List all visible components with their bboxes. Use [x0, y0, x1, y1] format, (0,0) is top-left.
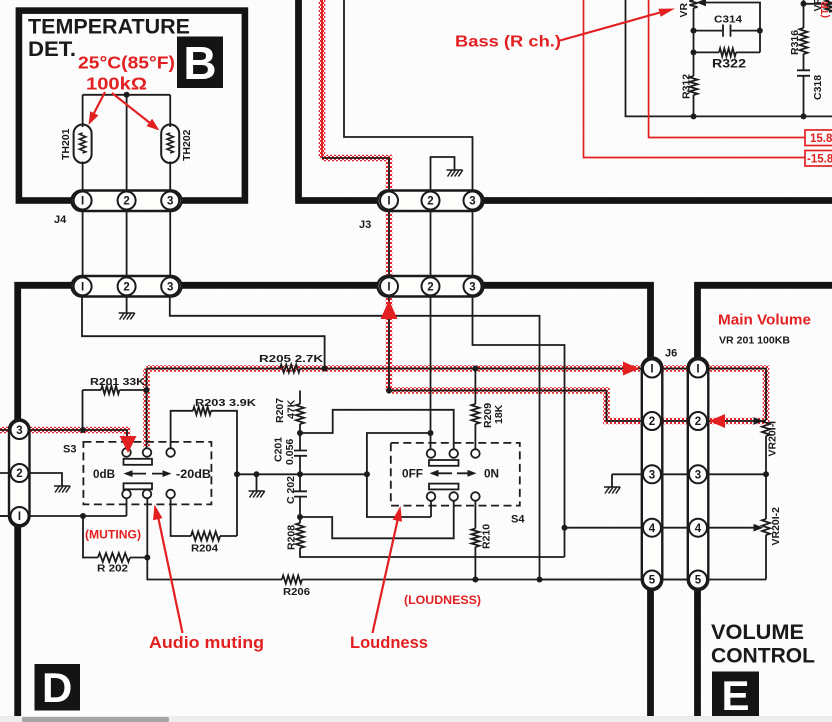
svg-text:R208: R208: [286, 525, 298, 550]
switch S4 contact 3: [471, 449, 480, 458]
svg-text:R207: R207: [274, 398, 286, 423]
capacitor C318: [797, 70, 810, 76]
svg-text:Audio muting: Audio muting: [149, 634, 264, 652]
wire R203 right leg down to mid rail: [211, 411, 237, 475]
svg-text:I: I: [81, 196, 84, 208]
section border top-right circuit block: [295, 0, 832, 201]
switch S4 contact 2: [449, 449, 458, 458]
connector J6 left pin 4: [643, 519, 661, 537]
wire R210 top from S4 bottom contact3: [474, 501, 476, 529]
browser scrollbar thumb: [22, 717, 169, 722]
connector left pin 2: [11, 464, 29, 482]
connector J3 mate pin 2: [422, 277, 440, 295]
resistor R207 47K: [296, 404, 304, 424]
red trace arrow right into J6 pin1: [623, 362, 639, 376]
node junction at 693.5,116.4: [691, 113, 697, 119]
svg-text:R206: R206: [283, 586, 310, 598]
svg-text:(MUTING): (MUTING): [85, 530, 141, 542]
connector J6 left pin 5: [643, 571, 661, 589]
svg-text:I: I: [387, 196, 390, 208]
red test-point line to 15.8 box: [649, 0, 805, 138]
node junction at 766,474.3: [763, 471, 769, 477]
wire R316 top lead: [804, 0, 832, 28]
svg-text:R316: R316: [789, 30, 801, 55]
wire R207 bottom to C201: [299, 424, 301, 450]
svg-text:2: 2: [16, 468, 22, 480]
svg-text:I: I: [387, 282, 390, 294]
resistor R208: [296, 523, 304, 548]
section badge B: [177, 37, 223, 89]
wire bottom rail right of R206: [302, 579, 688, 581]
wire J3 pin2 to ground jog: [431, 157, 455, 200]
wire TH201 bottom lead to J4 pin1: [82, 162, 84, 201]
connector J3 mate pin 3: [464, 277, 482, 295]
svg-text:3: 3: [167, 282, 173, 294]
wire J3 mate pin1 down to audio node (under red): [388, 296, 390, 391]
connector J3 pin 1: [380, 192, 398, 210]
resistor R206: [282, 576, 302, 584]
svg-text:R201 33K: R201 33K: [90, 376, 145, 388]
svg-text:B: B: [183, 37, 216, 89]
svg-text:VR: VR: [812, 0, 824, 12]
svg-text:2: 2: [427, 196, 433, 208]
wire R205 left lead: [147, 368, 281, 370]
svg-text:C314: C314: [714, 14, 742, 26]
resistor R316: [800, 28, 808, 54]
svg-text:47K: 47K: [286, 399, 298, 419]
wire VR201-1 bottom to pin3 node: [765, 436, 767, 474]
connector left pin 3: [11, 421, 29, 439]
wire J3 pin3 to mate pin3: [472, 201, 474, 287]
node junction at 759.8,30.6: [757, 28, 763, 34]
svg-text:15.8: 15.8: [810, 133, 832, 145]
node junction at 475.4,579.5: [472, 577, 478, 583]
connector J4 mate row 2 body: [72, 276, 182, 297]
svg-text:VR20I-2: VR20I-2: [770, 507, 782, 546]
wire S4 top contact1 stub: [430, 433, 432, 449]
wire J6 pin3 to VR201 center tap node: [708, 473, 766, 475]
resistor R312: [690, 76, 698, 95]
connector left pin 1: [11, 507, 29, 525]
svg-text:I: I: [81, 282, 84, 294]
VR bass wiper arrow: [696, 0, 706, 6]
switch S3 contact 5: [143, 490, 152, 499]
wire C318 bottom lead: [803, 77, 805, 117]
resistor R205 2.7K: [280, 365, 300, 373]
wire C314 leads: [694, 30, 761, 32]
wire J3 pin1 up and left (under red trace): [322, 158, 389, 200]
node junction at 237,474.3: [234, 471, 240, 477]
red arrow Loudness leader: [373, 516, 399, 633]
switch S4 contact 6: [471, 492, 480, 501]
svg-text:2: 2: [123, 282, 129, 294]
wire TH201 top lead: [82, 95, 84, 127]
wire J4 mate pin3 to bottom rail via long drop: [170, 296, 540, 579]
wire thermistor top rail: [83, 94, 171, 96]
VR201-1 wiper arrow: [754, 417, 764, 425]
capacitor C314: [723, 25, 731, 37]
section box D border: [18, 285, 651, 716]
ground mid rail: [249, 491, 265, 498]
wire node mid rail to J4 pin2: [126, 95, 128, 200]
wire left connector pin3 stub: [0, 429, 20, 431]
svg-text:3: 3: [16, 425, 22, 437]
svg-text:5: 5: [695, 575, 702, 587]
wire J6 pin4 wiper line: [708, 527, 754, 529]
wire R202 left leg: [83, 516, 98, 558]
connector J3 mate pin 1: [380, 277, 398, 295]
wire R316 bottom to C318: [803, 54, 805, 70]
switch S3 contact 3: [166, 448, 175, 457]
svg-text:Main Volume: Main Volume: [718, 312, 811, 329]
ground at J6 pin3: [604, 487, 620, 494]
wire left connector pin2 stub: [0, 472, 20, 474]
switch S3 moving bar bottom: [124, 483, 153, 489]
svg-text:2: 2: [649, 416, 655, 428]
svg-text:3: 3: [469, 196, 475, 208]
section box B border (TEMPERATURE DET.): [19, 11, 245, 201]
svg-text:2: 2: [123, 196, 129, 208]
wire R322 leads: [694, 31, 761, 53]
svg-text:DET.: DET.: [28, 38, 76, 61]
wire red signal trace: J3 pin1 branch down to node at y390: [322, 158, 389, 391]
node junction at 803.5,116.4: [801, 113, 807, 119]
svg-text:0FF: 0FF: [402, 469, 423, 481]
connector J6 right pin 4: [689, 519, 707, 537]
svg-text:Loudness: Loudness: [350, 634, 428, 652]
connector J6 left pin 2: [643, 412, 661, 430]
wire left pin2 to ground: [20, 473, 63, 486]
node junction at 366.9,474.3: [364, 471, 370, 477]
connector J6 left pin 1: [643, 360, 661, 378]
connector J6 left pin 3: [643, 465, 661, 483]
node junction at 539.5,579.5: [537, 577, 543, 583]
ground at left pin2: [54, 486, 70, 493]
svg-text:R322: R322: [712, 59, 746, 71]
thermistor TH202: [161, 125, 179, 164]
red test-point line to -15.8 box: [584, 0, 806, 158]
wire C202 node jog to S4 bottom contact2: [300, 501, 454, 538]
wire VR201-2 bottom lead: [708, 535, 766, 580]
svg-text:J6: J6: [665, 348, 677, 360]
section badge D: [35, 664, 81, 711]
svg-text:TH202: TH202: [181, 129, 193, 161]
wire S3 contact2 bottom to bottom rail: [147, 558, 282, 580]
switch S3 muting dashed body: [83, 442, 211, 505]
wire J6 pin1 to VR201-1 top: [708, 369, 766, 421]
node junction at 256.5,474.3: [254, 471, 260, 477]
svg-text:(LOUDNESS): (LOUDNESS): [404, 595, 481, 607]
node junction at 300,433: [297, 430, 303, 436]
connector J4 pin 1: [74, 192, 92, 210]
red arrow Audio muting leader: [158, 514, 183, 633]
resistor R210: [471, 529, 479, 548]
svg-text:25°C(85°F): 25°C(85°F): [78, 53, 175, 73]
resistor R322: [719, 48, 736, 56]
svg-text:R204: R204: [191, 543, 218, 555]
svg-text:R205 2.7K: R205 2.7K: [259, 353, 324, 365]
connector J3 mate row 2 body: [378, 276, 484, 297]
wire C202 top from mid rail: [299, 474, 301, 490]
node junction at 693.5,52.4: [691, 49, 697, 55]
red arrow 100k to TH201: [92, 92, 105, 117]
node junction at 83,516: [80, 513, 86, 519]
connector J3 pin 2: [422, 192, 440, 210]
wire red signal trace: jump to Bass circuit at top: [321, 0, 323, 158]
svg-text:4: 4: [695, 523, 702, 535]
svg-text:S3: S3: [63, 444, 76, 456]
wire S3 bottom contact3 to R204: [171, 498, 191, 536]
wire red signal trace: input at left connector pin3 into S3: [0, 430, 127, 441]
wire red signal trace: main path R205 rail to VR201-1 and wiper return: [147, 369, 767, 422]
svg-text:S4: S4: [511, 514, 525, 526]
wire R208 bottom leg: [300, 548, 565, 557]
wire J4 mate pin2 ground stub: [126, 296, 128, 313]
svg-text:VR 201 100KB: VR 201 100KB: [719, 336, 790, 347]
wire R207/C201 node jog to S4 top contact2: [300, 410, 454, 449]
wire S3 contact3 to R203: [171, 411, 193, 448]
wire mid rail ground stub: [256, 474, 258, 491]
svg-text:C201: C201: [273, 437, 285, 462]
potentiometer element far right edge (cut): [826, 0, 832, 12]
capacitor C201 0.056: [294, 451, 307, 456]
connector J6 right pin 1: [689, 360, 707, 378]
svg-text:E: E: [721, 672, 749, 719]
connector J6 right pin 5: [689, 571, 707, 589]
connector J4 mate pin 1: [74, 277, 92, 295]
svg-text:C 202: C 202: [285, 476, 297, 504]
svg-text:3: 3: [167, 196, 173, 208]
resistor R201 33K: [101, 386, 120, 394]
node junction at 147.3,557.5: [144, 555, 150, 561]
svg-text:I: I: [696, 364, 699, 376]
red voltage box -15.8: [805, 151, 832, 167]
connector J4 pin 2: [118, 192, 136, 210]
wire R209 top lead on red rail: [474, 369, 476, 405]
svg-text:2: 2: [695, 416, 701, 428]
wire J4 mate pin1 to R205 rail junction: [82, 296, 325, 369]
connector J3 pin 3: [464, 192, 482, 210]
connector left input body (S3 feed): [9, 420, 30, 527]
svg-text:100kΩ: 100kΩ: [86, 74, 147, 94]
svg-text:4: 4: [649, 523, 656, 535]
svg-text:R203 3.9K: R203 3.9K: [195, 397, 257, 409]
red arrow Bass (R ch.) leader: [560, 13, 660, 41]
wire J6 pin2 wiper line: [708, 420, 754, 422]
section badge E: [712, 672, 759, 719]
svg-text:TH201: TH201: [60, 128, 72, 160]
connector J6 left body: [642, 358, 663, 591]
wire TH202 top lead: [169, 95, 171, 127]
svg-text:I: I: [650, 364, 653, 376]
connector J6 right pin 2: [689, 412, 707, 430]
switch S3 throw arrows: [129, 473, 166, 475]
switch S3 contact 6: [166, 490, 175, 499]
svg-text:VR20I-I: VR20I-I: [767, 421, 779, 457]
node junction at 126.6,94.8: [124, 92, 130, 98]
wire J3 mate pin3 jog down to R208 foot: [473, 296, 565, 557]
connector J6 right body: [688, 358, 709, 591]
resistor R203 3.9K: [193, 407, 211, 415]
node junction at 564.5,527.7: [562, 525, 568, 531]
wire top-right block left drop to bottom rail: [626, 0, 832, 116]
switch S3 contact 1: [122, 448, 131, 457]
capacitor C202: [294, 491, 307, 496]
svg-text:TEMPERATURE: TEMPERATURE: [28, 16, 190, 39]
svg-text:0N: 0N: [484, 469, 499, 481]
svg-text:I: I: [18, 511, 21, 523]
svg-text:VR: VR: [678, 2, 690, 17]
ground at J3 pin2: [447, 170, 463, 177]
switch S4 contact 5: [449, 492, 458, 501]
switch S3 moving bar top: [124, 459, 153, 465]
resistor R202: [98, 553, 130, 562]
wire R209 bottom to S4 top contact3: [474, 424, 476, 449]
wire R205 right lead / red rail to J6 pin1: [300, 368, 688, 370]
wire R207 top lead from audio node: [299, 391, 301, 405]
node junction at 430.5,433: [428, 430, 434, 436]
wire TH202 bottom lead to J4 pin3: [169, 162, 171, 201]
VR201-2 wiper arrow: [754, 524, 764, 532]
connector J3 row 1 body: [378, 191, 484, 212]
red voltage box 15.8: [805, 130, 832, 146]
red trace arrow up into J3 mate pin1: [381, 300, 398, 319]
resistor R204: [191, 532, 220, 541]
wire J3 pin2 to mate pin2: [430, 201, 432, 287]
wire J3 mate pin2 down to S4 common: [430, 296, 432, 433]
svg-text:5: 5: [649, 575, 656, 587]
ground at J4 mate pin2: [119, 313, 135, 320]
svg-text:-15.8: -15.8: [807, 154, 832, 166]
svg-text:-20dB: -20dB: [176, 469, 211, 481]
wire R201 left leg: [82, 390, 84, 430]
node junction at 803.5,3.8: [801, 1, 807, 7]
wire J6 pin5 feed from bottom rail: [540, 579, 689, 581]
wire input line pin3 to S3 contact 1: [20, 430, 128, 448]
switch S4 throw arrows: [435, 472, 471, 474]
svg-text:18K: 18K: [493, 404, 505, 424]
node junction at 300,517: [297, 514, 303, 520]
node junction at 300,474.3: [297, 471, 303, 477]
wire VR201-2 top lead: [765, 474, 767, 519]
svg-text:D: D: [42, 664, 72, 711]
wire mid ground rail: [237, 473, 367, 475]
connector J4 mate pin 3: [161, 277, 179, 295]
switch S4 loudness dashed body: [391, 443, 520, 506]
svg-text:0.056: 0.056: [284, 439, 296, 465]
wire J4 pin1 to mate pin1: [82, 201, 84, 287]
potentiometer VR (bass) element top cut: [690, 0, 698, 8]
connector J6 right pin 3: [689, 465, 707, 483]
svg-text:3: 3: [695, 470, 701, 482]
wire J6 pin3 rail and ground: [612, 474, 688, 487]
potentiometer VR201-1 element: [762, 420, 770, 436]
red trace arrow left into J6 pin2: [709, 414, 725, 428]
wire C201 bottom to mid rail: [299, 456, 301, 474]
svg-text:0dB: 0dB: [93, 469, 115, 481]
wire VR bass wiper line: [704, 3, 760, 31]
red trace arrow down into S3 contact1: [120, 436, 137, 453]
wire R204 right leg to mid rail: [220, 474, 237, 536]
browser scrollbar track: [0, 716, 832, 722]
wire R210 bottom to rail: [474, 547, 476, 580]
wire C202 bottom node: [299, 497, 301, 523]
wire left connector pin1 stub: [0, 515, 20, 517]
wire J6 pin4 feed from R208 node: [565, 527, 689, 529]
wire R202 right leg / S3 bottom contact2: [130, 498, 147, 558]
svg-text:3: 3: [649, 470, 655, 482]
connector J4 row 1 body: [72, 191, 182, 212]
svg-text:C318: C318: [812, 75, 824, 100]
node junction at 324.6,368.5: [322, 366, 328, 372]
wire red signal trace: S3 contact2 up to R205 rail: [143, 369, 150, 448]
wire J3 pin1 to mate pin1: [388, 201, 390, 287]
svg-text:CONTROL: CONTROL: [711, 645, 815, 668]
wire S4 common loop: [367, 433, 431, 517]
node junction at 389,390.5: [386, 388, 392, 394]
svg-text:Bass (R ch.): Bass (R ch.): [455, 34, 561, 51]
connector J4 mate pin 2: [118, 277, 136, 295]
wire S3 bottom contact1 to pin1 line: [0, 498, 127, 516]
wire VR bass pot body column: [693, 8, 695, 116]
thermistor TH201: [74, 125, 92, 164]
switch S3 contact 2: [143, 448, 152, 457]
svg-text:J4: J4: [54, 214, 67, 226]
potentiometer VR201-2 element: [762, 519, 770, 535]
switch S3 contact 4: [122, 490, 131, 499]
svg-text:VOLUME: VOLUME: [711, 621, 804, 644]
wire J3 pin3 up to top edge: [344, 0, 473, 200]
svg-text:2: 2: [427, 282, 433, 294]
node junction at 83,430: [80, 427, 86, 433]
connector J4 pin 3: [161, 192, 179, 210]
svg-text:R210: R210: [481, 524, 493, 549]
node junction at 146.5,390: [144, 387, 150, 393]
switch S4 moving bar top: [429, 460, 459, 466]
wire S3 contact2 riser (under red): [146, 369, 148, 449]
wire J4 pin3 to mate pin3: [169, 201, 171, 287]
svg-text:R 202: R 202: [97, 563, 128, 575]
svg-text:3: 3: [469, 282, 475, 294]
svg-text:R312: R312: [681, 74, 693, 99]
node junction at 475.4,368.5: [472, 366, 478, 372]
red arrow 100k to TH202: [112, 93, 150, 123]
node junction at 693.5,30.6: [691, 28, 697, 34]
resistor R209 18K: [471, 404, 479, 424]
wire J4 pin2 to mate pin2: [126, 201, 128, 287]
switch S4 contact 4: [427, 492, 436, 501]
wire audio node to J6 pin2 (under red): [389, 391, 688, 422]
svg-text:J3: J3: [359, 219, 371, 231]
switch S4 moving bar bottom: [429, 484, 459, 490]
switch S4 contact 1: [427, 449, 436, 458]
section box E border (VOLUME CONTROL): [698, 285, 832, 716]
